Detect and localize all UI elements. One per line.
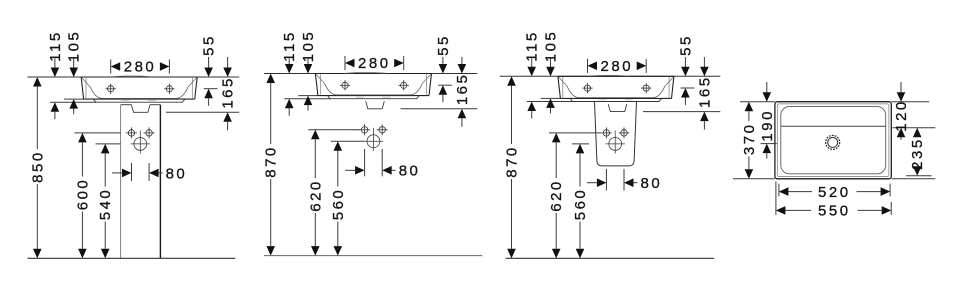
P1: dimension 850 [29,77,46,258]
panel 3: washbasin with half pedestal (siphon cover), front view, height 870 [500,30,721,259]
P1: drain hole [131,134,150,153]
P1: washbasin front view outline [81,76,197,99]
P3: dimension 55 [677,34,694,105]
panel 1: washbasin on full pedestal, front view, height 850 [28,30,240,259]
svg-text:870: 870 [263,145,280,178]
svg-text:520: 520 [818,184,851,201]
P3: dimension 115 [524,30,541,118]
P2: dimension 870 [263,74,280,256]
P4: bowl rear edge / tap deck line [781,125,886,127]
P4: dimension 120 [893,82,910,140]
P1: dimension 115 [47,30,64,119]
P2: drain collar trapezoid [366,101,385,109]
P2: rim level line [264,73,477,75]
P1: extension line at 165 level [166,111,239,113]
P3: rim level line [500,75,721,77]
svg-text:550: 550 [818,203,851,220]
P2: extension line at 620 level [308,129,360,131]
P2: basin skirt [328,96,420,99]
svg-text:115: 115 [47,30,64,61]
P3: extension lines for 105/115 [527,98,573,101]
svg-text:105: 105 [66,30,83,63]
P3: dimension 80 between pedestal fixing holes [587,169,662,192]
P3: extension line at 165 level [643,111,720,113]
P1: dimension 105 [66,30,83,114]
P4: dimension 235 [909,128,926,176]
P4: bowl outline [781,107,886,174]
svg-text:80: 80 [641,175,663,192]
P4: extension lines front edge [733,178,935,180]
P3: extension line at 560 level [572,143,589,145]
svg-text:560: 560 [330,188,347,221]
svg-text:280: 280 [358,55,391,72]
P2: extension line at 55 level [438,84,452,86]
P2: extension line at 165 level [401,108,478,110]
svg-text:55: 55 [677,34,694,56]
P3: fixing holes on basin [582,83,592,93]
P1: extension line at 55 level [204,88,218,90]
svg-text:55: 55 [435,34,452,56]
svg-text:235: 235 [909,137,926,170]
P1: fixing holes on basin [106,84,116,94]
P1: dimension 165 [220,57,237,130]
P1: pedestal fixing holes [126,127,137,138]
svg-text:600: 600 [74,178,91,211]
P3: pedestal fixing holes [601,127,612,138]
P2: dimension 560 [330,141,347,255]
svg-text:55: 55 [201,34,218,56]
P1: extension line at 600 level [75,132,121,134]
P3: floor line [506,257,715,259]
P3: dimension 165 [696,57,713,130]
svg-text:120: 120 [893,99,910,132]
P3: washbasin front view outline [558,75,674,98]
svg-text:80: 80 [166,165,188,182]
P4: dimension 550 [776,182,891,220]
P4: extension line bowl front (235 level) [906,175,932,177]
svg-text:190: 190 [759,109,776,142]
svg-text:540: 540 [97,188,114,221]
svg-text:560: 560 [572,188,589,221]
svg-text:165: 165 [220,76,237,109]
P1: dimension 540 [97,144,114,258]
panel 4: washbasin top view [733,82,935,220]
P2: washbasin front view outline [315,73,431,96]
svg-text:280: 280 [124,59,157,76]
P2: dimension 55 [435,34,452,102]
P4: dimension 370 [741,102,758,179]
P3: dimension 280 between fixing holes [588,58,647,75]
P3: dimension 560 [572,144,589,258]
P3: extension line at 620 level [549,132,601,134]
svg-text:850: 850 [29,150,46,183]
P3: half pedestal [595,102,637,166]
P2: extension lines for 105/115 [284,96,330,99]
P2: dimension 620 [307,130,324,256]
P4: extension lines rear edge [740,101,929,103]
svg-text:280: 280 [601,58,634,75]
svg-text:80: 80 [399,163,421,180]
P1: pedestal [121,105,161,259]
P4: inner rim line [777,104,889,177]
P1: dimension 280 between fixing holes [111,59,170,76]
P1: dimension 55 [201,34,218,106]
P1: rim level line [28,76,240,78]
P2: dimension 115 [281,30,298,115]
P2: dimension 280 between fixing holes [345,55,404,72]
svg-text:105: 105 [300,30,317,63]
P2: extension line at 560 level [331,140,365,142]
P3: basin skirt [570,98,662,101]
P3: extension line at 55 level [681,87,695,89]
P3: dimension 105 [543,30,560,114]
P1: extension line at 540 level [96,143,121,145]
P3: drain collar trapezoid [608,104,627,112]
svg-text:165: 165 [696,75,713,108]
P4: outer rim outline [775,102,891,179]
P4: dimension 190 [759,82,776,159]
svg-text:105: 105 [543,30,560,63]
panel 2: wall-hung washbasin, front view, height 870 [263,30,483,256]
P1: basin skirt [93,99,185,102]
P3: dimension 870 [504,76,521,258]
P4: dimension 520 [779,184,890,201]
P3: dimension 620 [548,133,565,258]
P2: dimension 80 between pedestal fixing holes [345,149,420,180]
P2: wall fixing holes [359,124,370,135]
P1: dimension 80 between pedestal fixing holes [112,163,187,182]
P4: extension line bowl rear (120 level) [893,127,936,129]
P1: dimension 600 [74,133,91,258]
svg-text:870: 870 [504,145,521,178]
P1: drain collar trapezoid [131,105,150,113]
P4: faucet hole [826,135,840,149]
svg-text:115: 115 [281,30,298,61]
P2: dimension 165 [454,57,471,127]
P1: floor line [28,257,236,259]
P1: extension lines for 105/115 [50,99,96,102]
P2: drain hole [364,132,383,151]
P3: drain hole [606,134,625,153]
svg-text:370: 370 [741,123,758,156]
P2: dimension 105 [300,30,317,111]
svg-text:620: 620 [307,179,324,212]
svg-text:620: 620 [548,179,565,212]
svg-text:115: 115 [524,30,541,61]
P4: extension line faucet center (190 level) [761,143,777,145]
P2: floor line [264,255,482,257]
P2: fixing holes on basin [340,80,350,90]
svg-text:165: 165 [454,73,471,106]
